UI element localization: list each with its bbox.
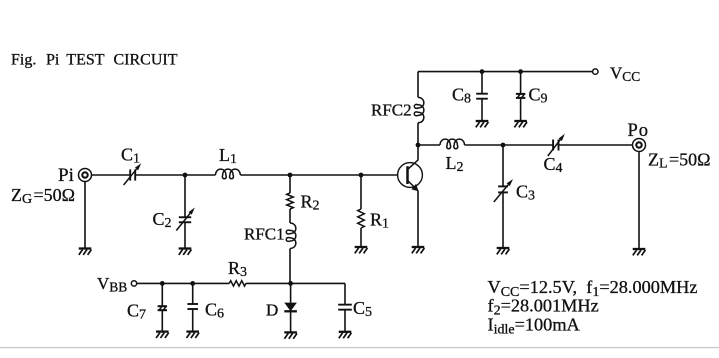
svg-text:Pi: Pi [46, 52, 60, 69]
svg-text:C6: C6 [205, 300, 224, 322]
svg-text:Iidle=100mA: Iidle=100mA [488, 315, 581, 338]
svg-text:TEST: TEST [66, 52, 104, 69]
svg-text:=50Ω: =50Ω [669, 150, 711, 170]
svg-text:RFC2: RFC2 [371, 101, 412, 120]
svg-text:CIRCUIT: CIRCUIT [114, 52, 178, 69]
svg-text:VBB: VBB [97, 274, 127, 295]
svg-text:R1: R1 [370, 210, 389, 232]
svg-text:R2: R2 [301, 192, 320, 214]
svg-text:ZL: ZL [648, 150, 668, 172]
svg-text:D: D [266, 301, 278, 320]
svg-text:C8: C8 [452, 85, 471, 107]
svg-text:=50Ω: =50Ω [34, 185, 76, 205]
svg-text:R3: R3 [228, 258, 247, 280]
svg-text:Pi: Pi [58, 165, 74, 186]
svg-text:RFC1: RFC1 [244, 225, 285, 244]
svg-text:C1: C1 [121, 145, 140, 167]
svg-text:C2: C2 [153, 209, 172, 231]
svg-text:C4: C4 [544, 154, 563, 176]
svg-text:VCC: VCC [610, 63, 640, 84]
svg-text:C7: C7 [127, 301, 146, 323]
svg-text:L1: L1 [219, 145, 237, 167]
svg-text:C5: C5 [353, 298, 372, 320]
svg-text:L2: L2 [446, 153, 464, 175]
svg-text:C9: C9 [529, 85, 548, 107]
svg-text:Po: Po [628, 121, 650, 141]
svg-text:C3: C3 [516, 182, 535, 204]
svg-text:ZG: ZG [11, 185, 32, 207]
svg-text:Fig.: Fig. [11, 52, 36, 69]
